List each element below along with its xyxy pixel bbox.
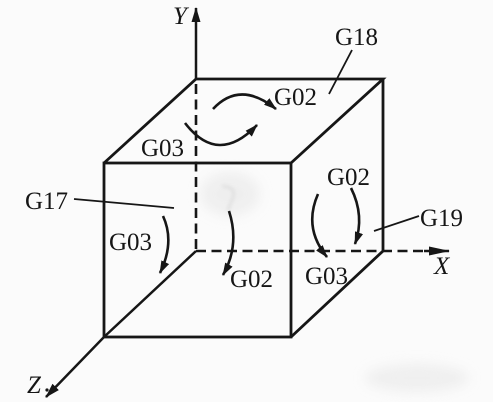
- svg-text:G02: G02: [274, 84, 317, 111]
- svg-text:G18: G18: [335, 24, 378, 51]
- svg-text:G03: G03: [141, 135, 184, 162]
- svg-text:X: X: [433, 253, 451, 280]
- svg-text:G19: G19: [420, 205, 463, 232]
- svg-text:G17: G17: [25, 188, 68, 215]
- svg-text:Z: Z: [27, 372, 42, 399]
- svg-text:G03: G03: [305, 263, 348, 290]
- svg-text:Y: Y: [173, 3, 190, 30]
- svg-text:G03: G03: [109, 229, 152, 256]
- svg-text:G02: G02: [327, 164, 370, 191]
- svg-text:G02: G02: [230, 266, 273, 293]
